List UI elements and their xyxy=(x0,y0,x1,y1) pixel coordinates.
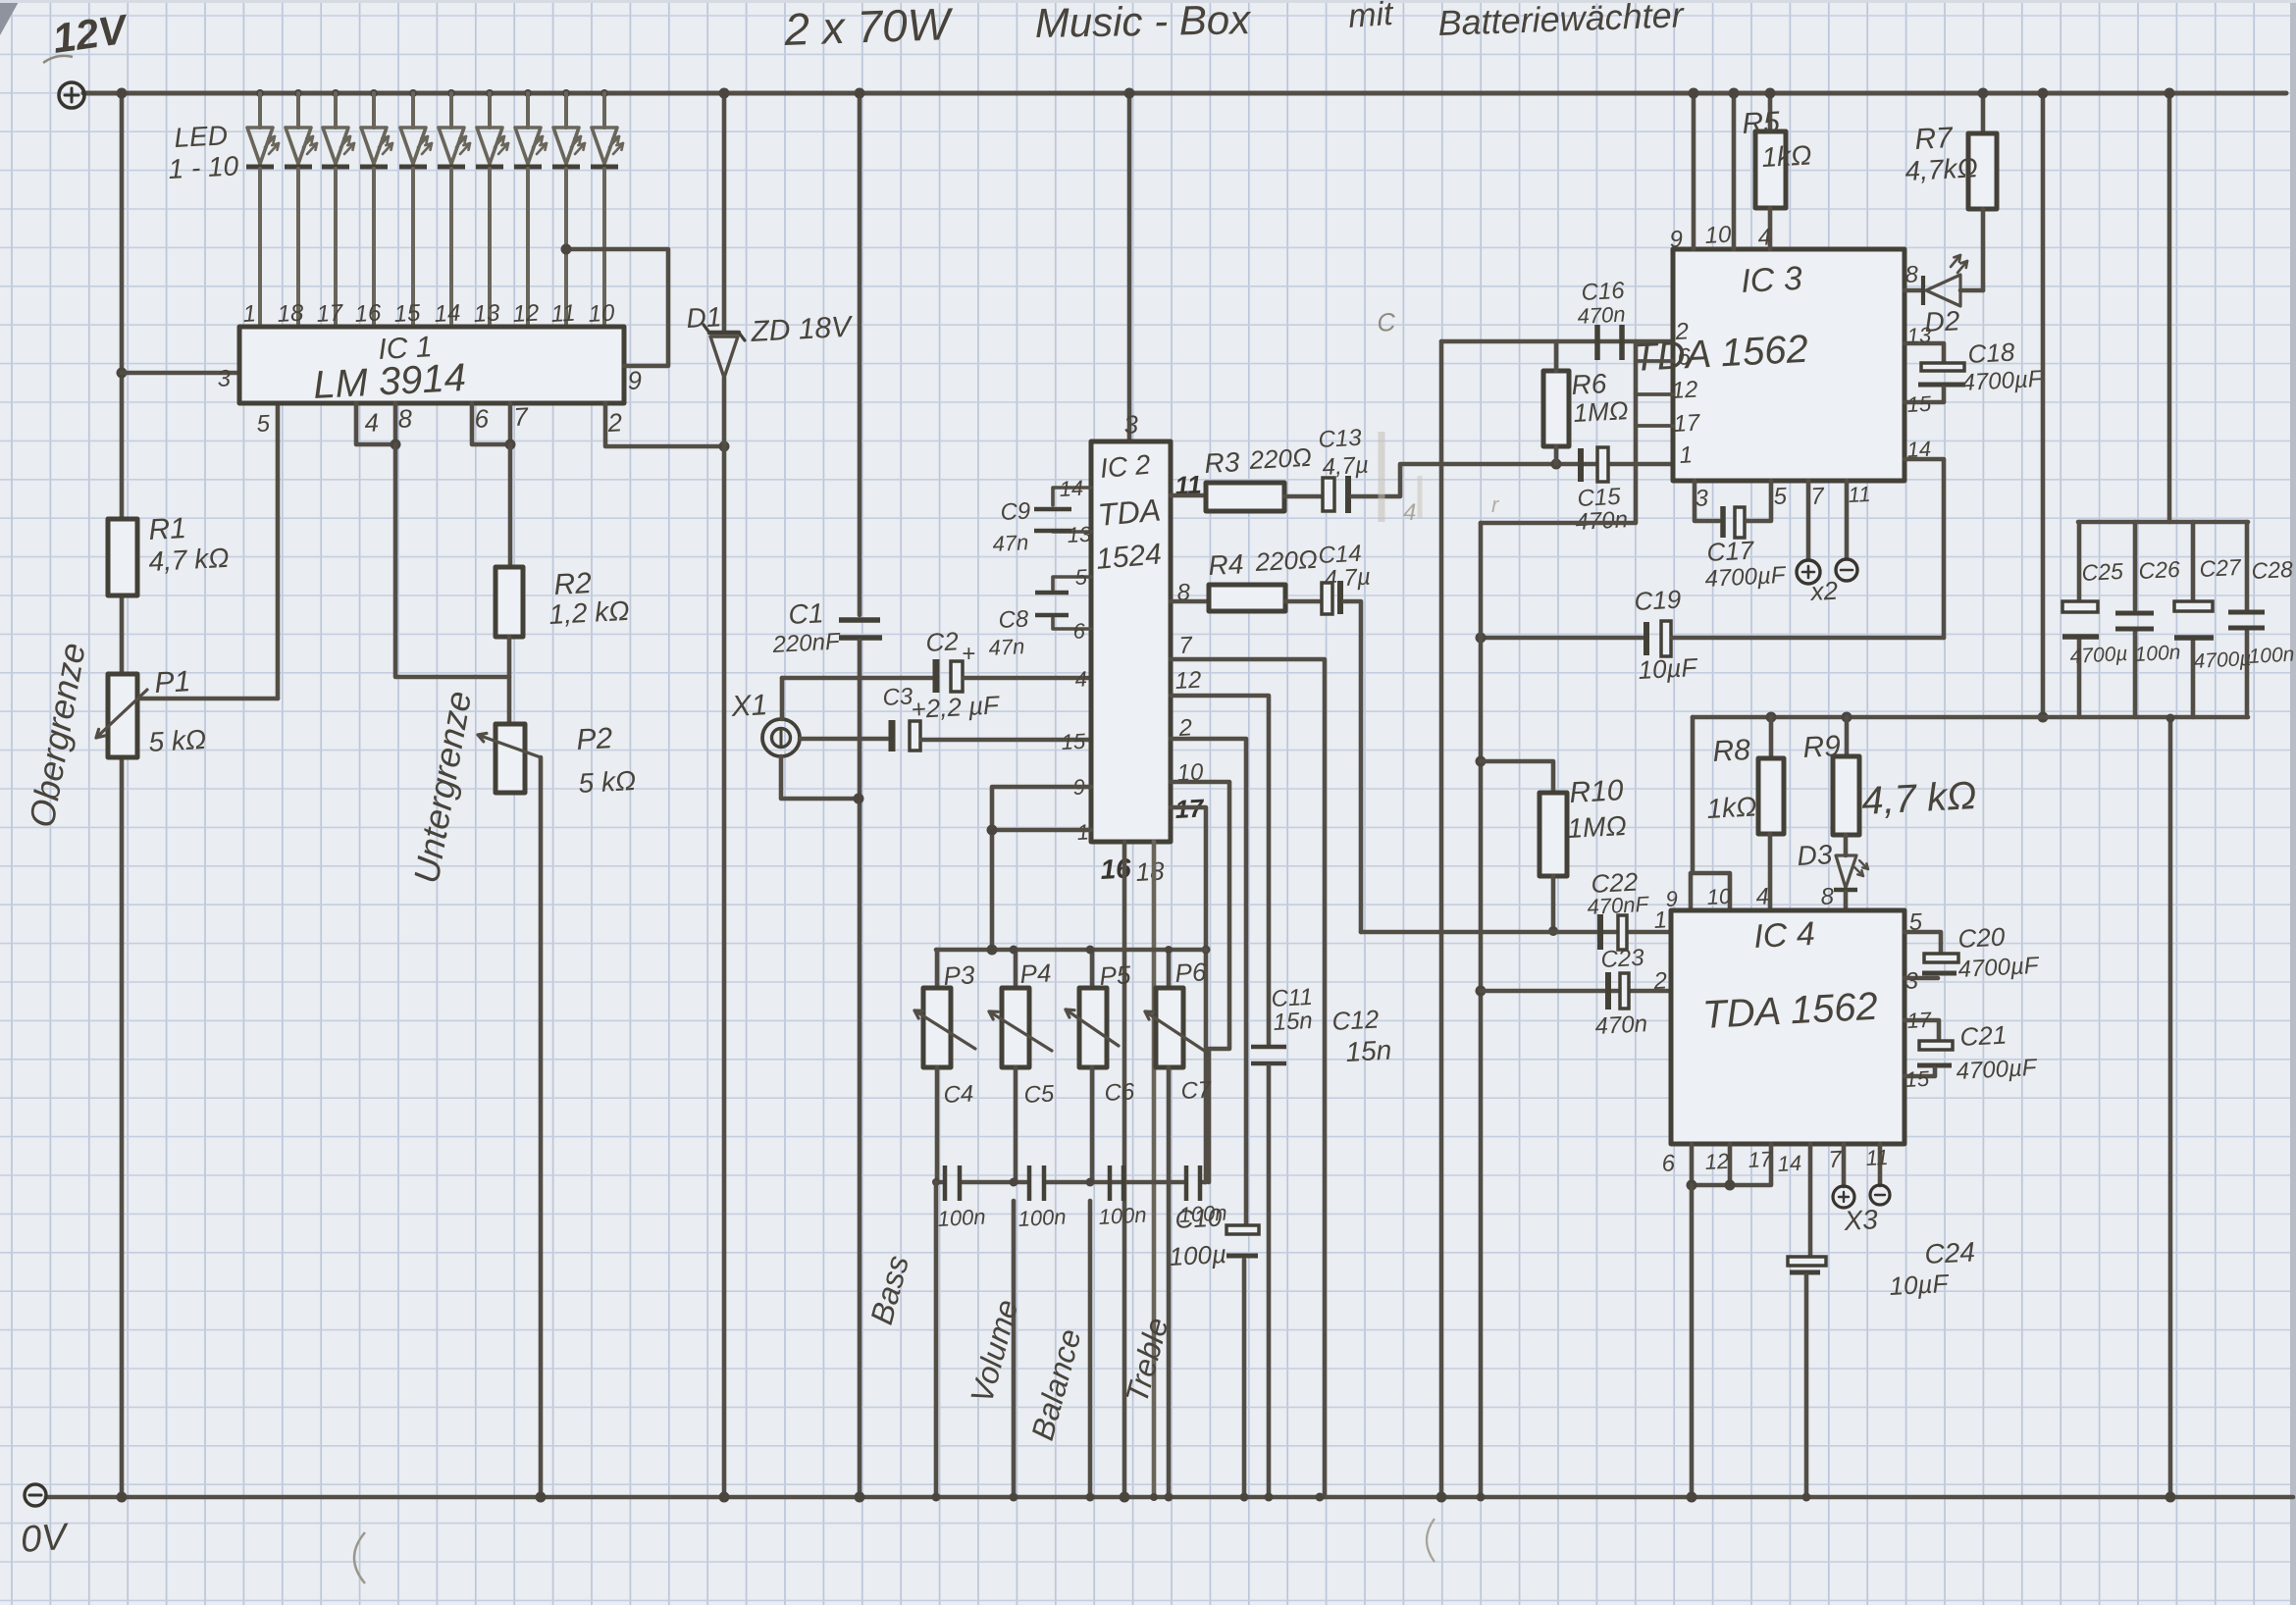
svg-text:4,7µ: 4,7µ xyxy=(1322,452,1370,481)
svg-text:11: 11 xyxy=(1865,1145,1889,1170)
svg-text:P4: P4 xyxy=(1019,958,1052,989)
svg-text:R9: R9 xyxy=(1802,730,1842,764)
svg-text:3: 3 xyxy=(1123,409,1140,440)
svg-text:mit: mit xyxy=(1347,0,1395,35)
svg-text:P5: P5 xyxy=(1099,959,1132,991)
svg-text:C28: C28 xyxy=(2251,556,2294,584)
svg-text:15: 15 xyxy=(1061,729,1087,754)
svg-text:C13: C13 xyxy=(1318,425,1363,453)
svg-text:1kΩ: 1kΩ xyxy=(1706,791,1757,824)
svg-text:4: 4 xyxy=(1074,666,1088,692)
svg-text:C17: C17 xyxy=(1706,535,1756,567)
svg-text:4700µF: 4700µF xyxy=(1704,562,1788,593)
svg-text:17: 17 xyxy=(1673,410,1702,438)
svg-text:R2: R2 xyxy=(553,567,593,601)
svg-text:R3: R3 xyxy=(1204,446,1241,479)
svg-text:1 - 10: 1 - 10 xyxy=(168,150,240,184)
svg-text:6: 6 xyxy=(1677,343,1692,371)
svg-text:1524: 1524 xyxy=(1095,538,1163,576)
svg-text:4,7 kΩ: 4,7 kΩ xyxy=(1860,774,1977,823)
svg-text:C9: C9 xyxy=(1000,497,1031,526)
svg-text:3: 3 xyxy=(1905,967,1919,995)
svg-text:X1: X1 xyxy=(730,689,768,723)
svg-text:100n: 100n xyxy=(1178,1200,1227,1227)
svg-text:16: 16 xyxy=(1100,853,1132,885)
svg-text:10: 10 xyxy=(1704,222,1733,249)
svg-text:C12: C12 xyxy=(1331,1005,1381,1036)
svg-text:LM 3914: LM 3914 xyxy=(312,356,467,407)
svg-text:15: 15 xyxy=(1906,391,1933,417)
svg-text:2 x 70W: 2 x 70W xyxy=(783,0,956,55)
svg-text:D3: D3 xyxy=(1797,839,1834,871)
svg-text:18: 18 xyxy=(277,300,305,328)
svg-text:TDA: TDA xyxy=(1096,492,1162,533)
svg-text:C25: C25 xyxy=(2081,558,2124,586)
svg-text:100n: 100n xyxy=(2248,644,2295,668)
svg-text:0V: 0V xyxy=(20,1517,72,1561)
svg-text:16: 16 xyxy=(354,300,383,328)
svg-text:4: 4 xyxy=(364,407,380,438)
svg-text:470n: 470n xyxy=(1577,301,1626,329)
svg-text:1MΩ: 1MΩ xyxy=(1573,395,1629,428)
svg-text:4: 4 xyxy=(1403,499,1416,526)
svg-text:15: 15 xyxy=(1905,1066,1931,1092)
svg-text:1MΩ: 1MΩ xyxy=(1567,810,1628,844)
svg-text:220Ω: 220Ω xyxy=(1248,442,1313,475)
svg-text:17: 17 xyxy=(316,300,345,328)
svg-text:2: 2 xyxy=(606,407,624,438)
svg-text:IC 4: IC 4 xyxy=(1752,915,1815,956)
svg-text:C2: C2 xyxy=(925,626,960,657)
svg-text:R8: R8 xyxy=(1712,734,1751,768)
svg-text:17: 17 xyxy=(1748,1147,1774,1172)
svg-text:Music - Box: Music - Box xyxy=(1034,0,1252,46)
svg-text:47n: 47n xyxy=(992,530,1029,556)
svg-text:100n: 100n xyxy=(2134,642,2181,666)
svg-text:TDA 1562: TDA 1562 xyxy=(1701,985,1879,1037)
svg-text:C24: C24 xyxy=(1924,1236,1976,1269)
svg-text:14: 14 xyxy=(1059,476,1084,501)
svg-text:470nF: 470nF xyxy=(1587,892,1650,919)
svg-text:R10: R10 xyxy=(1569,774,1625,809)
svg-text:15: 15 xyxy=(393,300,422,328)
svg-text:470n: 470n xyxy=(1594,1010,1648,1040)
svg-text:6: 6 xyxy=(1072,618,1086,644)
svg-text:LED: LED xyxy=(174,120,229,153)
svg-text:14: 14 xyxy=(1906,437,1932,462)
svg-text:R7: R7 xyxy=(1914,122,1955,156)
svg-text:9: 9 xyxy=(627,365,643,395)
svg-text:4,7kΩ: 4,7kΩ xyxy=(1905,152,1979,186)
svg-text:C4: C4 xyxy=(943,1080,974,1109)
svg-text:TDA 1562: TDA 1562 xyxy=(1632,328,1809,380)
svg-text:4,7 kΩ: 4,7 kΩ xyxy=(148,543,231,577)
svg-text:8: 8 xyxy=(1905,261,1919,288)
svg-text:C: C xyxy=(1376,307,1396,337)
svg-text:100n: 100n xyxy=(1098,1202,1147,1229)
svg-text:12: 12 xyxy=(1704,1149,1730,1174)
svg-text:6: 6 xyxy=(474,403,491,434)
svg-text:C3: C3 xyxy=(882,683,914,711)
svg-text:X3: X3 xyxy=(1843,1204,1879,1236)
svg-text:1kΩ: 1kΩ xyxy=(1761,139,1812,173)
svg-text:14: 14 xyxy=(434,300,461,328)
svg-text:C1: C1 xyxy=(788,597,824,630)
svg-text:IC 3: IC 3 xyxy=(1740,260,1802,300)
svg-text:9: 9 xyxy=(1665,886,1679,911)
svg-text:12: 12 xyxy=(512,300,540,328)
svg-text:4700µ: 4700µ xyxy=(2193,647,2252,673)
svg-text:1,2 kΩ: 1,2 kΩ xyxy=(548,595,631,630)
svg-text:8: 8 xyxy=(397,403,414,434)
svg-text:15n: 15n xyxy=(1345,1035,1392,1067)
svg-text:4700µF: 4700µF xyxy=(1956,1055,2039,1085)
svg-text:C19: C19 xyxy=(1634,585,1682,616)
svg-text:P2: P2 xyxy=(576,722,614,756)
svg-text:+: + xyxy=(962,641,975,667)
svg-text:11: 11 xyxy=(1848,482,1871,507)
svg-text:47n: 47n xyxy=(988,634,1025,660)
svg-text:R6: R6 xyxy=(1571,368,1608,400)
svg-text:10: 10 xyxy=(1706,884,1733,909)
svg-text:11: 11 xyxy=(550,300,576,328)
svg-text:IC 2: IC 2 xyxy=(1099,449,1152,484)
svg-text:100µ: 100µ xyxy=(1169,1239,1227,1271)
svg-text:x2: x2 xyxy=(1808,576,1840,607)
svg-text:P6: P6 xyxy=(1174,957,1208,988)
svg-text:3: 3 xyxy=(217,365,232,392)
svg-text:C27: C27 xyxy=(2199,554,2243,582)
svg-text:220Ω: 220Ω xyxy=(1254,544,1319,577)
svg-text:R5: R5 xyxy=(1742,106,1781,140)
svg-text:14: 14 xyxy=(1777,1151,1802,1176)
svg-text:5: 5 xyxy=(1908,908,1923,936)
svg-text:P1: P1 xyxy=(154,665,191,699)
svg-text:C8: C8 xyxy=(998,605,1030,634)
svg-text:R1: R1 xyxy=(148,512,187,546)
svg-text:P3: P3 xyxy=(943,959,976,991)
svg-text:4: 4 xyxy=(1757,224,1772,251)
svg-text:ZD 18V: ZD 18V xyxy=(750,311,855,348)
svg-text:5: 5 xyxy=(1074,564,1088,590)
svg-text:D1: D1 xyxy=(686,301,722,334)
svg-text:C26: C26 xyxy=(2138,556,2181,584)
svg-text:10µF: 10µF xyxy=(1638,652,1699,685)
svg-text:C18: C18 xyxy=(1967,337,2016,369)
svg-text:C5: C5 xyxy=(1023,1080,1056,1109)
svg-text:4,7µ: 4,7µ xyxy=(1324,564,1372,593)
svg-text:8: 8 xyxy=(1820,883,1835,910)
svg-text:100n: 100n xyxy=(937,1204,986,1231)
svg-text:4700µF: 4700µF xyxy=(1961,366,2045,396)
svg-text:13: 13 xyxy=(473,300,501,328)
svg-text:6: 6 xyxy=(1661,1150,1676,1177)
svg-text:12: 12 xyxy=(1671,377,1698,404)
svg-text:R4: R4 xyxy=(1208,548,1244,581)
svg-text:4700µ: 4700µ xyxy=(2069,643,2128,668)
svg-text:C7: C7 xyxy=(1180,1076,1214,1105)
svg-text:17: 17 xyxy=(1906,1008,1933,1033)
svg-text:C20: C20 xyxy=(1957,922,2007,954)
svg-text:2: 2 xyxy=(1652,967,1668,995)
svg-text:5: 5 xyxy=(256,410,271,438)
svg-text:4700µF: 4700µF xyxy=(1957,953,2041,983)
svg-text:C23: C23 xyxy=(1600,945,1645,973)
svg-text:10: 10 xyxy=(588,300,616,328)
svg-text:1: 1 xyxy=(242,300,257,328)
svg-text:2: 2 xyxy=(1674,318,1690,345)
svg-text:3: 3 xyxy=(1695,485,1709,512)
svg-text:C6: C6 xyxy=(1104,1078,1136,1107)
svg-text:5: 5 xyxy=(1773,483,1788,510)
svg-text:12: 12 xyxy=(1174,667,1202,695)
svg-text:100n: 100n xyxy=(1018,1204,1067,1231)
svg-text:15n: 15n xyxy=(1273,1008,1313,1036)
svg-text:5 kΩ: 5 kΩ xyxy=(578,765,637,799)
svg-text:5 kΩ: 5 kΩ xyxy=(148,724,207,757)
svg-text:4: 4 xyxy=(1755,883,1770,910)
svg-text:10µF: 10µF xyxy=(1889,1268,1951,1301)
svg-text:18: 18 xyxy=(1135,855,1166,887)
svg-text:1: 1 xyxy=(1679,441,1694,469)
svg-text:13: 13 xyxy=(1906,323,1933,348)
svg-text:220nF: 220nF xyxy=(771,628,842,658)
svg-text:9: 9 xyxy=(1669,226,1684,253)
svg-text:C21: C21 xyxy=(1959,1020,2008,1052)
svg-text:13: 13 xyxy=(1067,522,1093,547)
svg-text:+2,2 µF: +2,2 µF xyxy=(911,690,1002,724)
